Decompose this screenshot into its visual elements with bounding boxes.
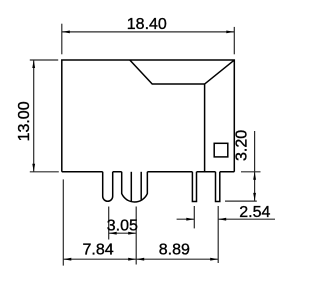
dim 13.00 line bbox=[33, 60, 35, 172]
dim 2.54 leader right bbox=[218, 218, 275, 220]
dim 2.54 arrow right (points left) bbox=[218, 218, 226, 221]
dim 18.40 arrow left bbox=[62, 31, 70, 34]
pin 1 round U bbox=[103, 172, 113, 202]
pin 2 wide blade outline bbox=[122, 172, 148, 202]
dim 3.05 arrow right bbox=[128, 232, 136, 235]
dim 7.84 extension line left bbox=[62, 179, 64, 265]
dim 3.20 arrow down bbox=[253, 193, 256, 201]
dim 7.84 arrow left bbox=[63, 258, 71, 261]
dim 18.40 extension line left bbox=[61, 24, 63, 55]
inner vertical edge bbox=[204, 84, 206, 172]
dim 3.05 arrow left bbox=[109, 232, 117, 235]
svg-text:13.00: 13.00 bbox=[16, 101, 33, 141]
body outline: left, top, right edges bbox=[62, 60, 235, 172]
dim 3.20 extension line bottom (pin bottom level) bbox=[225, 200, 257, 202]
dim 3.20 line bbox=[254, 131, 256, 201]
dim 8.89 arrow right bbox=[210, 258, 218, 261]
dim 8.89 line bbox=[136, 258, 218, 260]
dim 3.20 extension line top (body bottom level) bbox=[241, 171, 261, 173]
small square detail bbox=[214, 143, 228, 157]
dim 7.84 line bbox=[63, 258, 136, 260]
pin 2 inner line left bbox=[130, 172, 132, 202]
dim 3.05 line bbox=[109, 232, 137, 234]
svg-text:18.40: 18.40 bbox=[127, 16, 167, 33]
svg-text:2.54: 2.54 bbox=[239, 204, 270, 221]
dim 3.05 extension line right (pin2 center) bbox=[135, 207, 137, 265]
dim 13.00 extension line bottom bbox=[30, 171, 59, 173]
dim 2.54 leader left bbox=[177, 218, 195, 220]
svg-text:7.84: 7.84 bbox=[83, 242, 114, 259]
dim 7.84 arrow right bbox=[128, 258, 136, 261]
dim 18.40 line bbox=[62, 31, 235, 33]
dim 18.40 extension line right bbox=[233, 27, 235, 54]
dim 13.00 arrow top bbox=[32, 60, 35, 68]
body outline: bottom edge segments (gaps at pins) bbox=[62, 171, 235, 173]
pin 3 bbox=[192, 172, 196, 202]
dim 2.54 extension line left (pin3 center) bbox=[193, 206, 195, 228]
dim 2.54 arrow left (points right) bbox=[186, 218, 194, 221]
dim 13.00 arrow bottom bbox=[32, 164, 35, 172]
svg-text:8.89: 8.89 bbox=[159, 242, 190, 259]
svg-text:3.05: 3.05 bbox=[107, 217, 138, 234]
dim 8.89 extension line right (pin4 center) bbox=[217, 206, 219, 263]
dim 13.00 extension line top bbox=[30, 59, 58, 61]
pin 2 inner line right bbox=[140, 172, 142, 200]
dim 8.89 arrow left bbox=[136, 258, 144, 261]
dim 3.05 extension line left (pin1 center) bbox=[108, 207, 110, 240]
dim 3.20 arrow up bbox=[253, 172, 256, 180]
pin 4 bbox=[216, 172, 220, 202]
bevel polyline on top face bbox=[130, 60, 234, 84]
dim 18.40 arrow right bbox=[226, 31, 234, 34]
svg-text:3.20: 3.20 bbox=[234, 130, 251, 161]
